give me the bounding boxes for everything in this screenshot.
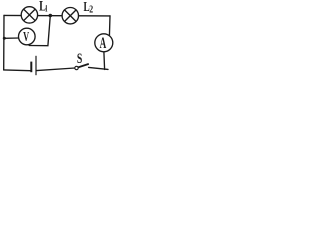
- wire bottom middle: [37, 68, 75, 71]
- wire bottom right: [89, 67, 108, 69]
- switch S pivot: [75, 66, 78, 69]
- svg-text:1: 1: [45, 4, 48, 15]
- battery cell: short thick plate (negative): [30, 62, 32, 73]
- wire top: [4, 14, 110, 17]
- lamp L1: [21, 7, 37, 23]
- svg-text:A: A: [100, 35, 107, 52]
- switch S lever: [78, 64, 89, 68]
- svg-text:2: 2: [89, 5, 93, 16]
- wire middle vertical from node to voltmeter: [29, 15, 50, 45]
- ammeter A: [95, 34, 113, 52]
- wire right upper vertical: [108, 16, 111, 37]
- wire left edge: [3, 15, 5, 70]
- node A (top junction dot): [49, 14, 53, 18]
- node B (left junction dot): [3, 37, 6, 40]
- battery cell: long thin plate (positive): [35, 56, 37, 75]
- wire left stub to voltmeter: [4, 37, 19, 39]
- wire bottom left: [4, 69, 31, 72]
- wire right lower vertical: [103, 52, 106, 70]
- svg-text:V: V: [23, 29, 29, 44]
- voltmeter V: [19, 28, 36, 45]
- lamp L2: [62, 8, 78, 24]
- svg-text:S: S: [77, 51, 82, 67]
